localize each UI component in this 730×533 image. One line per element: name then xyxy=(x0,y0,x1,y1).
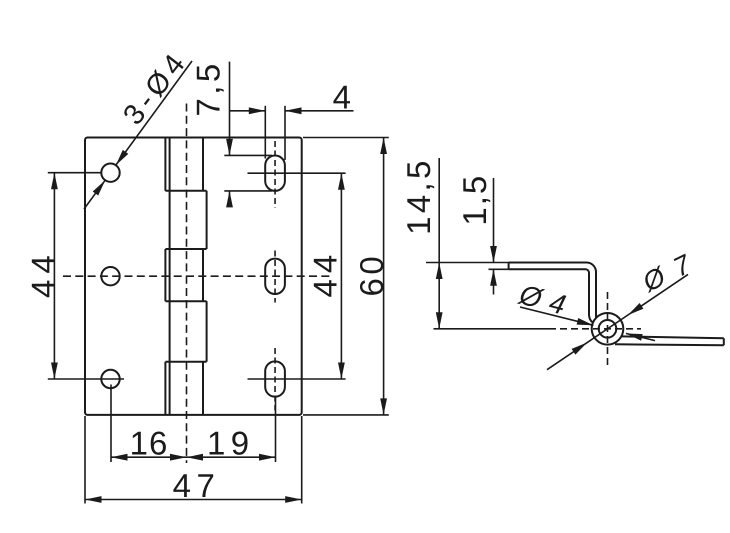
svg-text:44: 44 xyxy=(25,249,62,298)
svg-text:14,5: 14,5 xyxy=(400,157,437,234)
svg-text:7,5: 7,5 xyxy=(190,60,227,116)
svg-text:4: 4 xyxy=(333,79,351,116)
svg-text:1,5: 1,5 xyxy=(456,174,493,226)
svg-text:60: 60 xyxy=(353,253,390,297)
svg-text:47: 47 xyxy=(173,467,221,504)
svg-text:44: 44 xyxy=(307,249,344,298)
svg-text:16: 16 xyxy=(130,425,169,462)
svg-text:19: 19 xyxy=(207,425,255,462)
